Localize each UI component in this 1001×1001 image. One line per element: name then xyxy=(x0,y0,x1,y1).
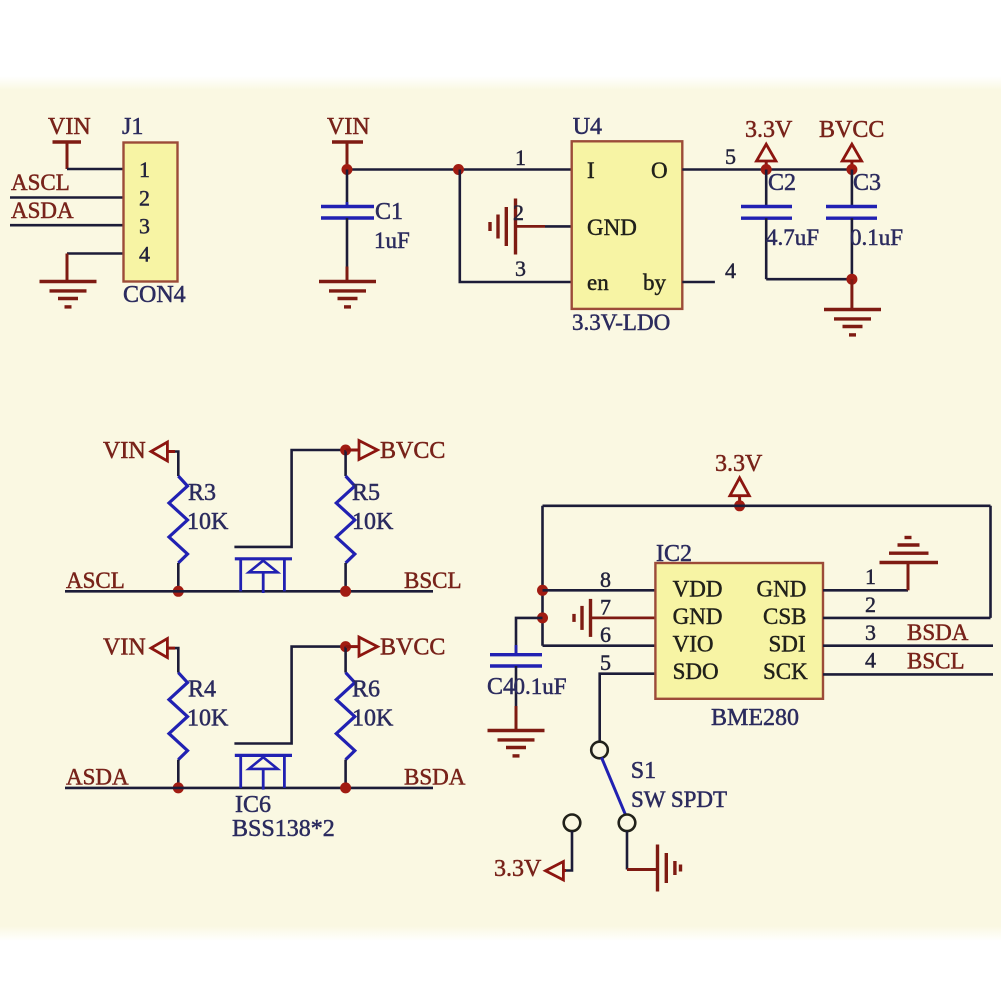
svg-text:VDD: VDD xyxy=(673,577,723,602)
svg-text:C4: C4 xyxy=(487,674,515,700)
svg-text:2: 2 xyxy=(139,186,150,211)
svg-text:SDO: SDO xyxy=(673,659,719,684)
svg-text:R6: R6 xyxy=(352,677,380,703)
svg-text:ASCL: ASCL xyxy=(66,568,125,593)
svg-text:GND: GND xyxy=(757,577,807,602)
svg-text:O: O xyxy=(651,158,668,183)
svg-text:BSDA: BSDA xyxy=(404,765,466,790)
svg-text:C2: C2 xyxy=(768,170,796,196)
svg-text:10K: 10K xyxy=(187,509,229,535)
svg-text:VIN: VIN xyxy=(103,438,146,464)
svg-text:IC2: IC2 xyxy=(656,541,692,567)
svg-text:1: 1 xyxy=(515,145,526,170)
svg-text:0.1uF: 0.1uF xyxy=(514,674,567,699)
svg-text:4: 4 xyxy=(865,648,876,673)
svg-text:BVCC: BVCC xyxy=(380,438,445,464)
svg-text:10K: 10K xyxy=(187,706,229,732)
svg-text:SDI: SDI xyxy=(769,632,806,657)
svg-text:3: 3 xyxy=(139,213,150,238)
svg-text:3: 3 xyxy=(515,256,526,281)
svg-text:10K: 10K xyxy=(352,509,394,535)
svg-text:8: 8 xyxy=(600,567,611,592)
svg-text:2: 2 xyxy=(513,200,524,225)
svg-text:ASDA: ASDA xyxy=(66,765,129,790)
svg-text:3: 3 xyxy=(865,620,876,645)
svg-text:BVCC: BVCC xyxy=(380,635,445,661)
svg-text:R5: R5 xyxy=(352,480,380,506)
svg-text:BSCL: BSCL xyxy=(907,649,965,674)
svg-text:SW SPDT: SW SPDT xyxy=(631,787,727,812)
svg-text:VIN: VIN xyxy=(327,114,370,140)
svg-text:BSCL: BSCL xyxy=(404,568,462,593)
svg-text:U4: U4 xyxy=(573,114,602,140)
svg-text:IC6: IC6 xyxy=(235,792,271,818)
svg-text:1: 1 xyxy=(139,157,150,182)
svg-text:C1: C1 xyxy=(375,199,403,225)
svg-text:4: 4 xyxy=(139,241,150,266)
svg-text:3.3V: 3.3V xyxy=(494,856,542,882)
svg-text:6: 6 xyxy=(600,622,611,647)
svg-text:ASDA: ASDA xyxy=(11,198,74,223)
svg-text:1: 1 xyxy=(865,564,876,589)
svg-text:3.3V: 3.3V xyxy=(745,117,793,143)
svg-text:BSDA: BSDA xyxy=(907,620,969,645)
svg-text:C3: C3 xyxy=(853,170,881,196)
svg-text:en: en xyxy=(587,270,609,295)
svg-text:VIO: VIO xyxy=(673,632,714,657)
svg-text:3.3V: 3.3V xyxy=(715,451,763,477)
svg-text:CON4: CON4 xyxy=(123,282,186,308)
svg-text:S1: S1 xyxy=(631,758,656,784)
svg-text:GND: GND xyxy=(673,604,723,629)
svg-text:7: 7 xyxy=(600,595,611,620)
svg-text:3.3V-LDO: 3.3V-LDO xyxy=(572,310,670,335)
svg-text:VIN: VIN xyxy=(103,635,146,661)
svg-text:BSS138*2: BSS138*2 xyxy=(232,816,335,842)
svg-text:4: 4 xyxy=(725,258,736,283)
svg-text:0.1uF: 0.1uF xyxy=(850,225,903,250)
svg-text:VIN: VIN xyxy=(48,114,91,140)
svg-text:I: I xyxy=(587,158,595,183)
svg-text:2: 2 xyxy=(865,592,876,617)
svg-text:BVCC: BVCC xyxy=(819,117,884,143)
svg-text:10K: 10K xyxy=(352,706,394,732)
svg-text:4.7uF: 4.7uF xyxy=(766,225,819,250)
svg-text:J1: J1 xyxy=(122,114,143,140)
svg-text:GND: GND xyxy=(587,215,637,240)
svg-text:SCK: SCK xyxy=(763,659,808,684)
svg-text:1uF: 1uF xyxy=(374,228,410,253)
svg-text:CSB: CSB xyxy=(763,604,806,629)
svg-text:5: 5 xyxy=(600,650,611,675)
svg-text:ASCL: ASCL xyxy=(11,170,70,195)
svg-text:R3: R3 xyxy=(188,480,216,506)
svg-text:5: 5 xyxy=(725,144,736,169)
svg-text:by: by xyxy=(643,270,667,295)
svg-text:BME280: BME280 xyxy=(711,705,799,731)
svg-text:R4: R4 xyxy=(188,677,216,703)
